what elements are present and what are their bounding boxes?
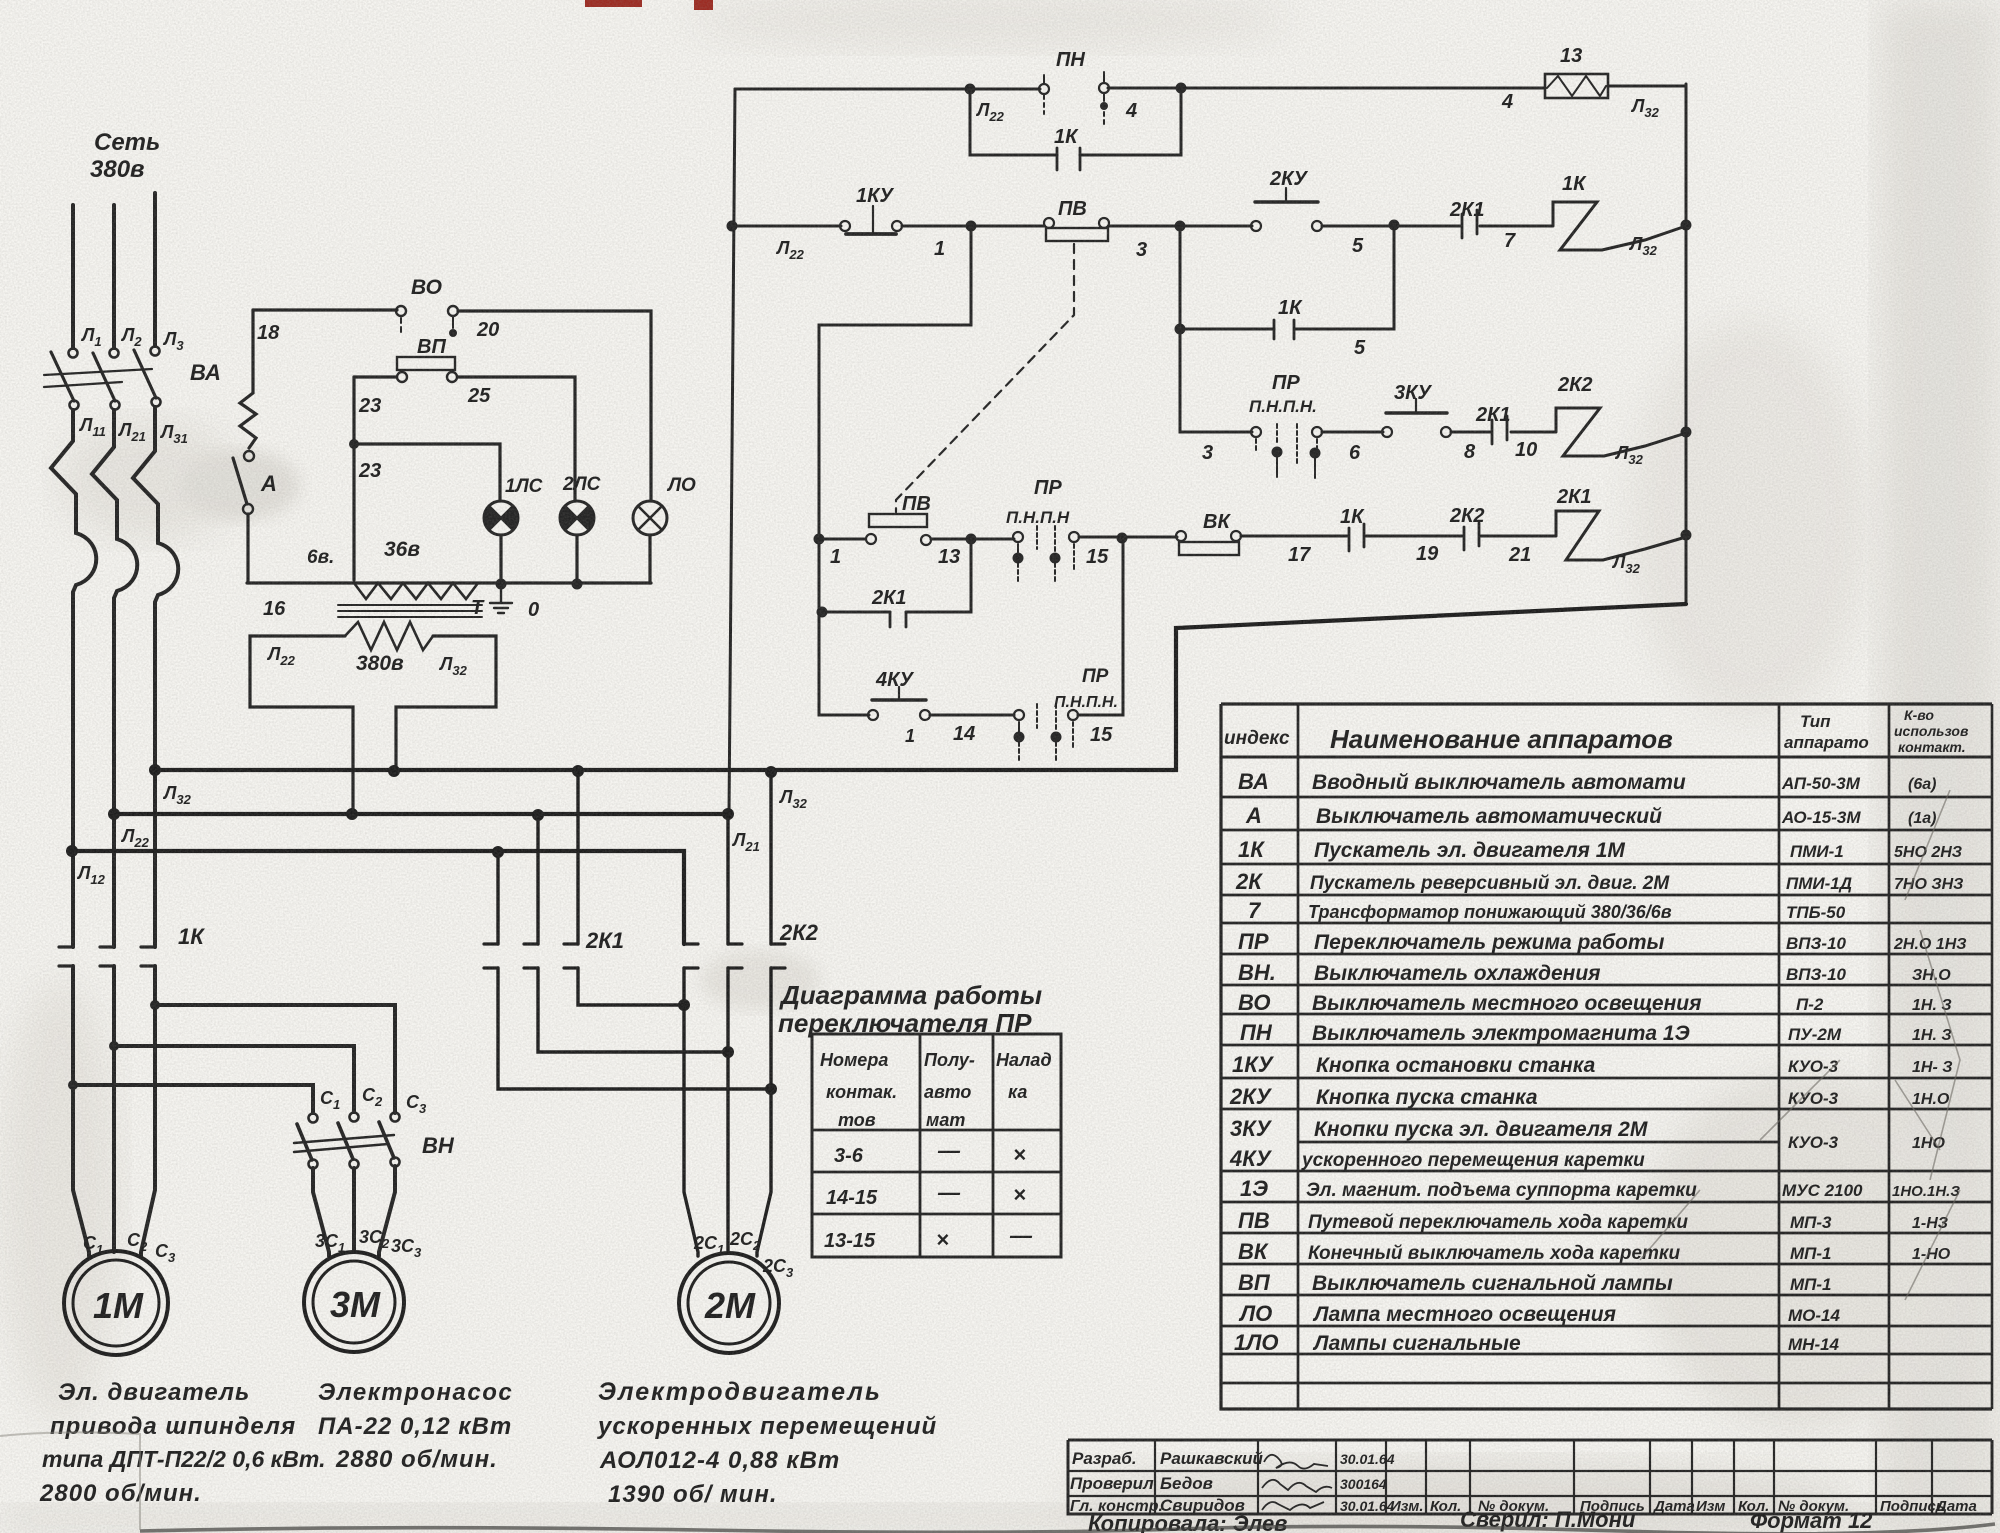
handwriting Сверил xyxy=(1460,1507,1636,1532)
wire 2КУ to 2К1 xyxy=(1322,220,1460,231)
coil 1К xyxy=(1480,173,1692,250)
node 19 xyxy=(1416,543,1439,565)
handwriting Формат xyxy=(1750,1508,1873,1533)
node 10 xyxy=(1515,439,1537,461)
limit switch ПВ lower xyxy=(814,493,932,545)
lamp 2ЛС xyxy=(560,474,601,535)
wire crossover node A xyxy=(578,968,690,1011)
wire 4КУ rung right riser xyxy=(1078,538,1123,715)
junction ВН tap phase1 xyxy=(68,1080,313,1113)
wire to ПВ xyxy=(902,221,1044,232)
contactor contact 1К xyxy=(59,924,205,966)
wire Л22 from primary xyxy=(250,636,353,814)
node 3С1 xyxy=(315,1231,345,1255)
wire 1М lead C3 xyxy=(141,966,155,1256)
wire ПР to ВК xyxy=(1079,533,1177,544)
junction ВН tap phase2 xyxy=(109,1041,354,1112)
node Л32 fuse right xyxy=(1630,96,1660,120)
signature Бедов xyxy=(1262,1480,1332,1492)
node 2С2 xyxy=(729,1229,761,1253)
button 2КУ xyxy=(1251,168,1322,231)
contact 2К1 NC xyxy=(1449,199,1485,238)
wire 2М lead 2С1 xyxy=(684,968,698,1256)
wire top right xyxy=(458,311,651,501)
transformer Т secondary 36в xyxy=(307,538,478,599)
wire 2К1 phase b drop xyxy=(536,815,539,944)
contact 2К1 NC rung2 xyxy=(1475,404,1511,444)
label motor 1М description xyxy=(39,1379,325,1507)
contact 1К self-hold xyxy=(1175,225,1395,359)
wire fuse to right bus xyxy=(1608,85,1686,88)
wire 2К1 phase c drop xyxy=(576,771,579,944)
node Л21 label xyxy=(731,830,760,854)
wire phase 1 to 1К xyxy=(71,770,75,947)
wire rung1 down to ПВ lower xyxy=(819,226,971,535)
node 3С3 xyxy=(391,1236,422,1260)
wire ВП left xyxy=(354,375,396,378)
motor 2М xyxy=(679,1253,779,1353)
wire bus Л32 xyxy=(149,604,1686,778)
node Л22 xyxy=(975,100,1005,124)
motor 3М xyxy=(304,1252,404,1352)
wire control top xyxy=(735,88,1545,89)
node С2 1М xyxy=(127,1230,148,1254)
wire crossover node B xyxy=(538,968,734,1058)
wire 2К2 phase drops xyxy=(728,772,771,944)
node С3 xyxy=(406,1092,427,1116)
switch ВН xyxy=(294,1113,455,1169)
title block row Разраб xyxy=(1072,1449,1395,1468)
node 2С3 xyxy=(762,1256,794,1280)
wire phase 3 to 1К xyxy=(153,770,157,947)
node 14 xyxy=(953,723,975,745)
signature Рашкавский xyxy=(1264,1455,1328,1469)
title block row Проверил xyxy=(1070,1474,1387,1493)
signature Свиридов xyxy=(1262,1502,1324,1510)
node 20 xyxy=(476,319,499,341)
node Сеть 380в xyxy=(90,129,160,183)
mechanical link ПВ dashed xyxy=(896,244,1074,512)
wire phase L1 drop xyxy=(71,205,75,348)
junction ВН tap phase3 xyxy=(150,1000,395,1113)
node Л32 rung1 xyxy=(1628,234,1658,258)
node 4 xyxy=(1125,100,1137,122)
thermal element phase 3 xyxy=(133,407,178,770)
node 3 rung2 xyxy=(1202,442,1213,464)
wire 3М lead 3С3 xyxy=(379,1166,395,1256)
contact 1К NC rung3 xyxy=(1340,506,1365,551)
diagram ПР title xyxy=(778,980,1042,1038)
node Л3 xyxy=(151,329,185,356)
node 6 xyxy=(1349,442,1361,464)
node 1 lower xyxy=(830,546,841,568)
coil 2К1 xyxy=(1481,486,1692,560)
wire crossover node C xyxy=(498,968,777,1095)
node 4 fuse left xyxy=(1501,91,1513,113)
diagram ПР row 3-6 xyxy=(834,1138,1026,1167)
node 25 xyxy=(467,385,491,407)
ground xyxy=(471,585,539,621)
wire 2М lead 2С2 xyxy=(726,968,729,1252)
wire lamp bottoms xyxy=(496,535,651,590)
limit switch ВК xyxy=(1176,511,1241,555)
contactor contact 2К1 xyxy=(484,928,624,968)
thermal element phase 2 xyxy=(92,410,137,814)
wire phase 2 to 1К xyxy=(112,814,116,947)
wire ПВ to ПР lower xyxy=(931,534,1014,545)
switch ПР contacts П.Н.П.Н rung2 xyxy=(1249,372,1322,478)
node 15 4КУ xyxy=(1090,724,1113,746)
button 3КУ xyxy=(1382,382,1451,437)
switch ПР contacts П.Н.П.Н rung4 xyxy=(1014,666,1118,760)
wire right bus Л32 xyxy=(1685,84,1688,604)
node 18 xyxy=(257,322,280,344)
node 3 xyxy=(1136,239,1147,261)
crease marks right column xyxy=(1895,790,1960,1300)
label motor 2М description xyxy=(597,1378,937,1508)
diagram ПР row 13-15 xyxy=(824,1223,1033,1252)
node Л32 bus label xyxy=(162,783,192,807)
wire 0 rail xyxy=(247,581,651,584)
node С1 xyxy=(320,1088,340,1112)
component table header xyxy=(1224,707,1969,755)
node 7 xyxy=(1504,230,1516,252)
switch А xyxy=(233,451,277,583)
node 2С1 xyxy=(693,1233,724,1257)
node 1 4КУ xyxy=(905,726,915,746)
wire ВП right to lamp 2ЛС xyxy=(458,377,575,501)
wire phase L3 drop xyxy=(153,193,157,346)
wire 3М lead 3С1 xyxy=(313,1168,329,1256)
node С2 xyxy=(362,1085,383,1109)
wire lamp loop top xyxy=(253,308,397,311)
wire ПВ to 2КУ xyxy=(1109,221,1252,232)
thermal element phase 1 xyxy=(51,410,96,770)
title block captions xyxy=(1390,1498,1977,1515)
switch ПР contacts П.Н.П.Н rung3 xyxy=(1006,477,1079,581)
wire 3М lead 3С2 xyxy=(352,1168,356,1252)
wire 2К1 phase a drop xyxy=(496,852,499,944)
contact 2К2 NC rung3 xyxy=(1449,505,1485,550)
node Л31 xyxy=(152,398,188,447)
contact 1К bypass xyxy=(965,83,1187,171)
node 17 xyxy=(1288,544,1311,566)
node 23 xyxy=(349,377,381,482)
node 13 xyxy=(938,546,960,568)
node Л21 xyxy=(111,401,146,445)
button 4КУ xyxy=(868,669,930,720)
node 3С2 xyxy=(359,1227,390,1251)
wire phase L2 drop xyxy=(112,205,116,348)
node Л32 rung3 xyxy=(1611,552,1641,576)
node 1 xyxy=(934,238,945,260)
diagram ПР row 14-15 xyxy=(826,1180,1026,1209)
node 21 xyxy=(1508,544,1531,566)
red mark left xyxy=(585,0,642,7)
node 15 xyxy=(1086,546,1109,568)
wire ВК to 1К NC xyxy=(1241,535,1347,538)
node Л22 rung1 xyxy=(775,238,805,262)
switch ВП xyxy=(397,336,457,382)
wire 1М lead C1 xyxy=(73,966,89,1256)
lamp 1ЛС xyxy=(484,476,543,535)
limit switch ПВ upper xyxy=(1044,198,1109,241)
coil 2К2 xyxy=(1511,374,1692,456)
wire bus Л12 xyxy=(66,845,684,944)
node Л32 rung2 xyxy=(1614,443,1644,467)
component table frame xyxy=(1221,704,1992,1409)
node Л1 xyxy=(69,325,102,358)
lamp ЛО xyxy=(633,475,696,535)
title block frame xyxy=(1068,1440,1992,1514)
wire left drop to 4КУ xyxy=(819,539,869,715)
fuse 13 xyxy=(1545,45,1608,98)
paper bottom edge shadow xyxy=(140,1524,1995,1533)
node 5 xyxy=(1352,235,1364,257)
node С1 1М xyxy=(83,1233,103,1257)
wire 23 to lamp 1ЛС xyxy=(354,444,500,501)
node Л32 right label xyxy=(778,787,808,811)
node 8 xyxy=(1464,441,1476,463)
node Л2 xyxy=(110,325,143,358)
node 16 xyxy=(263,598,286,620)
wire bus Л22 xyxy=(108,808,734,821)
node С3 1М xyxy=(155,1241,176,1265)
wire xyxy=(1366,535,1462,538)
rung 1: junction xyxy=(727,221,842,232)
wire 1М lead C2 xyxy=(112,966,116,1252)
switch ПН xyxy=(1039,49,1109,124)
node Л12 bus label xyxy=(76,863,106,887)
transformer Т primary 380в xyxy=(345,622,433,675)
wire xyxy=(1322,431,1383,434)
wire Л32 from primary xyxy=(396,636,496,770)
breaker ВА xyxy=(44,350,221,401)
handwriting Копировала xyxy=(1088,1511,1287,1533)
title block row Гл.констр xyxy=(1070,1496,1395,1515)
transformer core xyxy=(338,605,482,617)
button 1КУ xyxy=(840,185,902,234)
wire 4КУ to ПР xyxy=(930,714,1014,717)
node Л11 xyxy=(70,401,106,440)
motor 1М xyxy=(64,1251,168,1355)
contact 2К1 bypass xyxy=(817,539,972,627)
diagram ПР table xyxy=(812,1034,1061,1257)
switch ВО xyxy=(396,276,458,337)
wire 2М lead 2С3 xyxy=(757,968,771,1256)
wire xyxy=(1451,431,1490,434)
wire drop to rung ПР xyxy=(1180,226,1252,432)
diagram ПР header xyxy=(820,1050,1052,1130)
wire 18 left side with fuse xyxy=(240,310,256,448)
wire 23 down to transformer xyxy=(352,444,355,580)
node Л22 bus label xyxy=(120,826,150,850)
red mark right xyxy=(694,0,713,10)
label motor 3М description xyxy=(318,1379,513,1473)
wire left control drop Л22 xyxy=(729,89,735,814)
contactor contact 2К2 xyxy=(684,920,819,968)
